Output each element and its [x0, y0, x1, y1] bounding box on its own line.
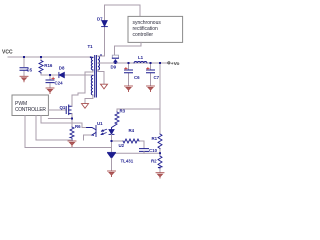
wire source and current sense	[48, 106, 72, 127]
wire C24 branch	[49, 75, 51, 88]
wire gate	[48, 109, 66, 111]
node primary dot	[90, 56, 92, 58]
capacitor C6	[125, 70, 133, 73]
capacitor C7	[147, 70, 155, 73]
wire R3 top feed	[117, 109, 160, 112]
wire feedback divider line	[159, 63, 161, 172]
svg-text:D9: D9	[111, 64, 117, 69]
transistor U2 TL431	[108, 152, 116, 158]
svg-text:R1: R1	[152, 136, 158, 141]
capacitor C5	[20, 68, 28, 71]
wire PWM pin A to opto collector	[41, 116, 87, 128]
opto emission arrows	[101, 129, 107, 134]
svg-text:C7: C7	[154, 75, 160, 80]
ground (R6)	[68, 141, 76, 147]
diode D9	[112, 55, 118, 62]
svg-text:C5: C5	[27, 68, 33, 73]
wire primary-bottom to Q1 drain staircase	[72, 70, 93, 106]
node secondary dot	[100, 54, 102, 56]
capacitor C10	[140, 149, 149, 152]
wire R4 row	[112, 141, 145, 148]
transformer core	[95, 56, 97, 98]
aux winding	[91, 76, 93, 96]
node junction dots	[23, 56, 161, 154]
wire output rail	[98, 62, 168, 64]
ground (C6)	[125, 86, 133, 92]
ground (C5)	[20, 76, 28, 82]
synchronous rectification controller U4	[128, 16, 183, 42]
svg-text:C10: C10	[149, 148, 158, 153]
wire C6 branch	[128, 63, 130, 86]
ground (aux return arrow)	[82, 104, 89, 109]
wire secondary top run to D7	[98, 5, 140, 56]
svg-text:R16: R16	[44, 63, 53, 68]
resistor R1	[158, 134, 162, 149]
wire R16 stubs	[40, 57, 42, 75]
PWM controller U3	[12, 95, 48, 116]
diode LED of optocoupler	[109, 130, 114, 135]
svg-text:VCC: VCC	[2, 50, 13, 56]
wire VCC rail	[8, 56, 93, 58]
svg-text:U2: U2	[119, 143, 125, 148]
wire PWM pin B to R6 ground node	[36, 116, 72, 141]
wire sync controller drive to D9	[115, 42, 142, 54]
svg-text:D8: D8	[59, 66, 65, 71]
wire secondary bottom return	[98, 70, 104, 84]
svg-text:TL431: TL431	[121, 159, 134, 164]
wire TL431 ref row	[112, 152, 161, 154]
svg-text:controller: controller	[133, 32, 154, 38]
resistor R4	[123, 139, 139, 143]
resistor R16	[39, 61, 43, 74]
wire TL431 anode	[111, 158, 113, 170]
op-amp U1 optocoupler transistor	[87, 126, 97, 137]
wire D8 row	[41, 74, 93, 76]
wire LED to TL431	[111, 135, 113, 153]
svg-text:R4: R4	[129, 128, 135, 133]
svg-text:U1: U1	[97, 121, 103, 126]
diode D8	[59, 72, 64, 77]
ground (R2)	[156, 173, 164, 178]
svg-text:Q1: Q1	[60, 105, 66, 110]
svg-text:+Vo: +Vo	[171, 61, 180, 67]
svg-text:D7: D7	[97, 16, 103, 21]
wire PWM pin C to TL431 node	[25, 116, 112, 148]
svg-text:C6: C6	[134, 75, 140, 80]
wire opto emitter	[84, 135, 93, 140]
primary winding	[91, 58, 93, 71]
svg-text:R2: R2	[151, 159, 157, 164]
ground (C7)	[147, 86, 155, 92]
resistor R6	[70, 127, 74, 141]
svg-text:R3: R3	[120, 109, 126, 114]
svg-text:L1: L1	[138, 55, 144, 60]
ground (C24)	[46, 88, 54, 94]
svg-text:T1: T1	[88, 44, 94, 49]
diode D7	[102, 21, 108, 27]
svg-text:C24: C24	[55, 81, 64, 86]
ground (TL431)	[108, 171, 116, 177]
wire C10 bottom	[143, 152, 145, 154]
svg-text:CONTROLLER: CONTROLLER	[15, 107, 46, 113]
transistor Q1	[66, 105, 72, 115]
inductor L1	[134, 61, 147, 63]
node +Vo terminal	[168, 62, 170, 64]
ground (secondary return arrow)	[101, 84, 108, 89]
secondary winding	[98, 56, 100, 70]
resistor R3	[112, 112, 120, 129]
capacitor C24	[46, 80, 54, 83]
svg-text:R6: R6	[75, 124, 81, 129]
resistor R2	[158, 156, 162, 168]
wire aux return	[85, 95, 93, 103]
wire C5 branch	[23, 57, 25, 76]
wire C7 branch	[150, 63, 152, 86]
